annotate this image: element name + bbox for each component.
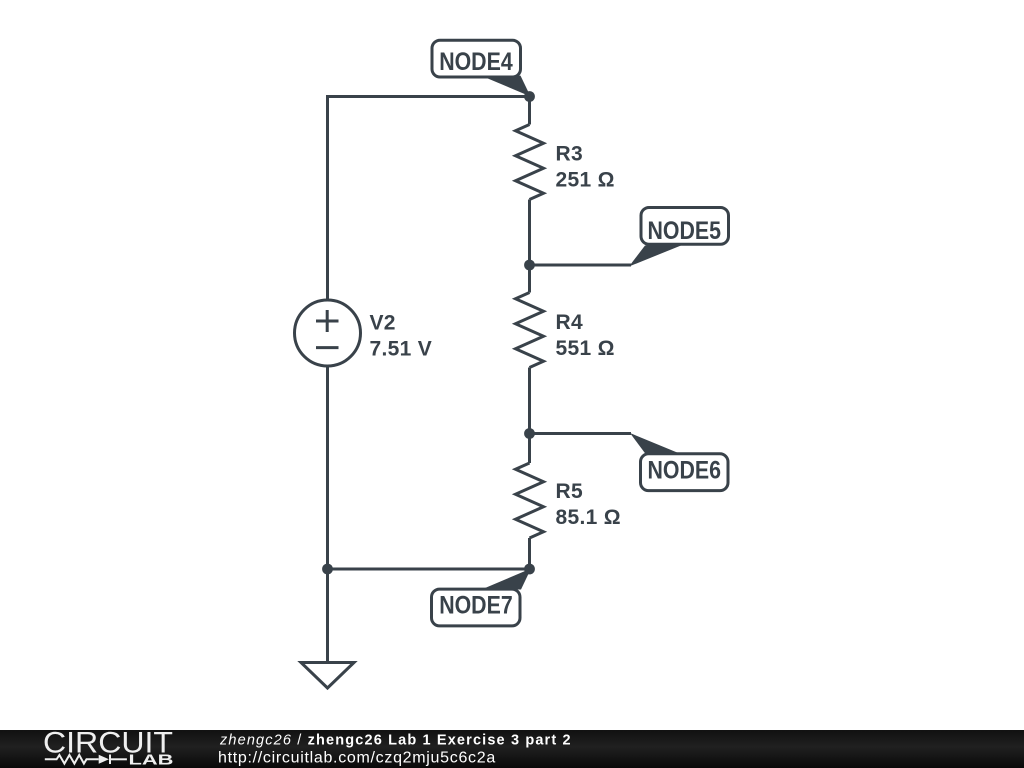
svg-text:LAB: LAB	[129, 752, 174, 768]
svg-text:V2: V2	[370, 312, 396, 335]
resistor R5	[516, 463, 544, 538]
node label NODE7	[432, 569, 532, 626]
node label NODE6	[630, 433, 728, 491]
wire: bottom horizontal to NODE7 junction	[328, 568, 530, 571]
svg-text:NODE6: NODE6	[648, 456, 722, 484]
wire: NODE6 stub	[530, 432, 632, 435]
wire: source bottom to bottom-left junction	[326, 367, 329, 570]
wire: R4 bottom lead to NODE6 junction	[528, 368, 531, 434]
svg-text:R4: R4	[556, 311, 583, 334]
label R5 value	[556, 480, 621, 529]
junction node NODE7	[524, 564, 535, 575]
junction node NODE6	[524, 428, 535, 439]
svg-text:R5: R5	[556, 480, 583, 503]
label R3 value	[556, 143, 615, 192]
svg-text:NODE5: NODE5	[648, 217, 722, 245]
footer bar	[0, 730, 1024, 768]
wire: R4 top lead	[528, 265, 531, 293]
resistor R4	[516, 293, 544, 368]
V2 plus sign	[316, 310, 339, 332]
wire: R3 top lead	[528, 97, 531, 125]
ground	[301, 663, 354, 689]
svg-text:zhengc26 / zhengc26 Lab 1 Exer: zhengc26 / zhengc26 Lab 1 Exercise 3 par…	[219, 733, 572, 749]
voltage source V2	[295, 300, 361, 366]
svg-text:NODE7: NODE7	[439, 591, 513, 619]
CircuitLab logo resistor-diode glyph	[45, 755, 127, 765]
node label NODE5	[629, 208, 729, 267]
junction node bottom-left	[322, 564, 333, 575]
wire: R3 bottom lead to NODE5 junction	[528, 200, 531, 266]
resistor R3	[516, 125, 544, 200]
wire: R5 top lead	[528, 434, 531, 464]
wire: NODE5 stub	[530, 264, 632, 267]
label R4 value	[556, 311, 615, 360]
V2 minus sign	[316, 346, 339, 349]
svg-text:551 Ω: 551 Ω	[556, 337, 615, 360]
junction node NODE5	[524, 260, 535, 271]
svg-text:85.1 Ω: 85.1 Ω	[556, 506, 621, 529]
junction node NODE4	[524, 91, 535, 102]
svg-text:251 Ω: 251 Ω	[556, 169, 615, 192]
svg-text:R3: R3	[556, 143, 583, 166]
label V2 value	[370, 312, 433, 361]
wire: R5 bottom lead	[528, 538, 531, 569]
node label NODE4	[432, 40, 531, 96]
svg-text:NODE4: NODE4	[439, 48, 513, 76]
wire: ground stem	[326, 569, 329, 662]
wire: top-left L from source top to NODE4 junction	[328, 97, 530, 301]
svg-text:7.51 V: 7.51 V	[370, 338, 433, 361]
svg-text:http://circuitlab.com/czq2mju5: http://circuitlab.com/czq2mju5c6c2a	[218, 750, 496, 767]
